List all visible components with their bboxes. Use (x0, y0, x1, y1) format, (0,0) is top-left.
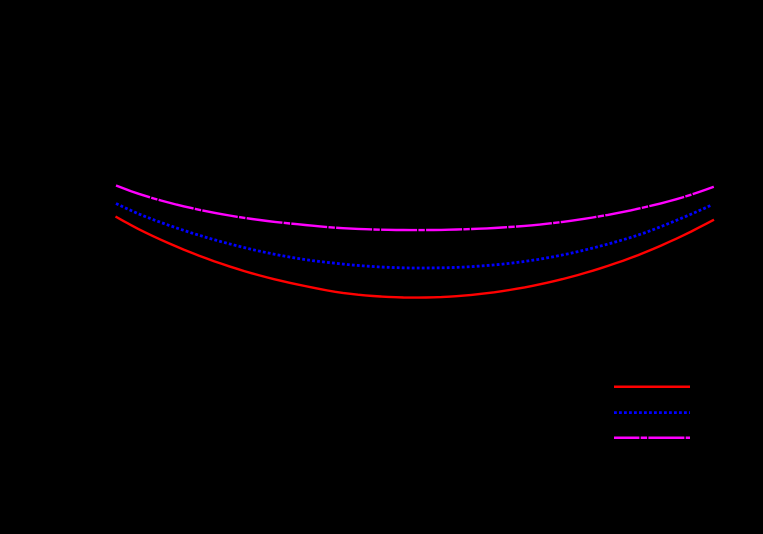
red solid curve (series 1) (116, 217, 715, 298)
legend red solid line sample (614, 386, 690, 389)
legend blue dotted line sample (614, 411, 690, 414)
blue dotted curve (series 2) (116, 204, 712, 269)
magenta dash-dot curve (series 3) (116, 186, 714, 231)
legend magenta dash-dot line sample (614, 437, 690, 440)
